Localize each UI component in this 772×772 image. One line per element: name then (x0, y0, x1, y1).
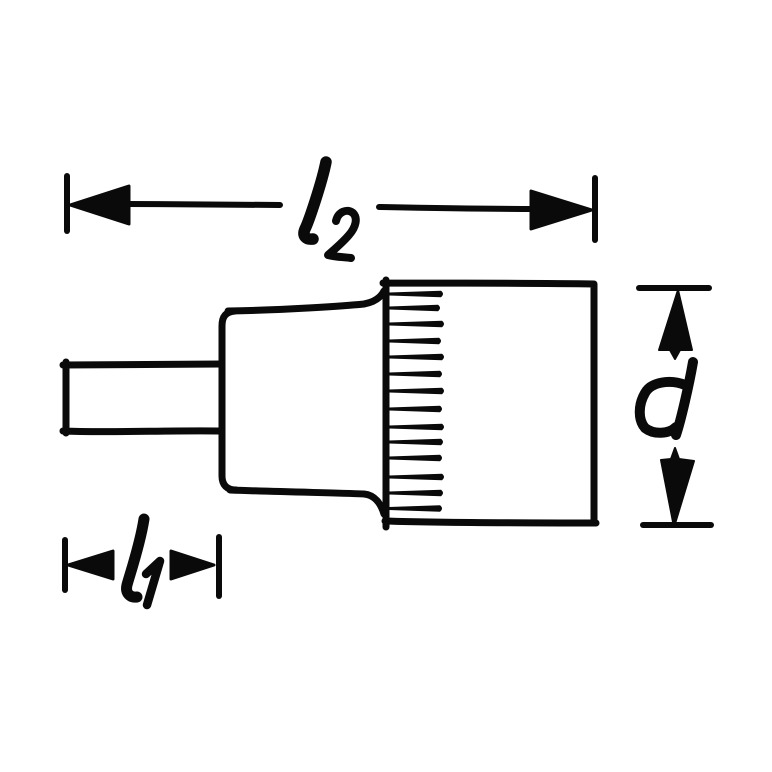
shaft (hex bit) rectangle (63, 362, 222, 433)
knurl ridge 2 (389, 305, 440, 311)
dimension l2 left tick (64, 176, 70, 231)
knurl ridge 3 (389, 321, 444, 327)
dimension d up arrowhead with tail (659, 290, 692, 359)
knurl ridge 9 (389, 424, 444, 430)
dimension l1 right arrowhead (171, 551, 214, 579)
dimension l2 line right segment (379, 207, 535, 209)
dimension l2 right tick (592, 178, 598, 240)
label l1: subscript 1 (146, 561, 160, 605)
knurl ridge 12 (389, 474, 444, 480)
knurl ridge 7 (389, 388, 444, 394)
dimension l1 left arrowhead (68, 551, 113, 579)
dimension d top tick (639, 285, 709, 291)
dimension l2 line left segment (125, 204, 280, 205)
knurl ridge 1 (389, 291, 443, 297)
knurl ridge 13 (389, 490, 443, 496)
label l1: letter l (127, 519, 144, 597)
dimension l2 left arrowhead (70, 186, 129, 224)
label l2: subscript 2 (328, 211, 356, 258)
knurl ridge 6 (389, 371, 442, 377)
knurl ridge 14 (389, 505, 442, 511)
knurl ridge 4 (389, 338, 441, 344)
dimension l1 left tick (62, 540, 68, 590)
label l2: letter l (304, 162, 326, 239)
knurl ridge 5 (389, 354, 444, 360)
knurl ridge 11 (389, 455, 442, 461)
dimension l1 right tick (216, 537, 222, 596)
middle collar section (222, 311, 236, 490)
dimension d down arrowhead with tail (661, 448, 694, 527)
dimension d bottom tick (643, 522, 711, 528)
collar bottom edge to knurl (230, 490, 384, 514)
socket body outline (383, 280, 596, 527)
collar top edge to knurl (228, 291, 384, 311)
knurl ridge 10 (389, 439, 443, 445)
knurl ridge 8 (389, 406, 442, 412)
dimension l2 right arrowhead (531, 191, 592, 229)
label d (640, 362, 693, 435)
